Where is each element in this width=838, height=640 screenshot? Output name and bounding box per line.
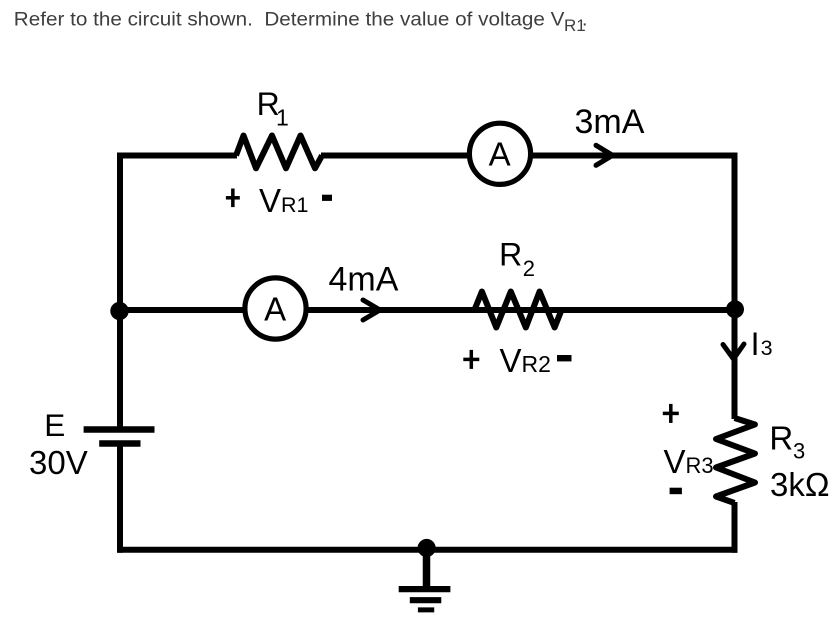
node: bottom junction bbox=[418, 539, 436, 557]
svg-text:30V: 30V bbox=[29, 444, 88, 481]
svg-text:1: 1 bbox=[276, 105, 289, 131]
svg-text:VR2: VR2 bbox=[500, 342, 551, 379]
svg-text:I: I bbox=[751, 326, 760, 362]
ammeter A1 bbox=[469, 123, 530, 184]
resistor R2 bbox=[474, 292, 561, 328]
svg-text:E: E bbox=[44, 407, 65, 443]
label - (V_R3 negative) bbox=[670, 488, 682, 495]
wire: right vertical upper (top corner to R3) bbox=[732, 153, 738, 420]
question text bbox=[14, 9, 588, 35]
svg-text:3: 3 bbox=[793, 439, 805, 464]
node: right junction bbox=[726, 300, 744, 318]
ammeter A2 bbox=[245, 278, 306, 339]
current arrow 3mA bbox=[596, 145, 613, 165]
svg-text:Refer to the circuit shown. D: Refer to the circuit shown. Determine th… bbox=[14, 9, 565, 31]
svg-text:2: 2 bbox=[523, 256, 535, 281]
svg-text:R: R bbox=[769, 419, 793, 456]
wire: left vertical lower (battery - to bottom corner) bbox=[117, 444, 123, 553]
label + (V_R1 positive) bbox=[226, 189, 240, 208]
wire: left vertical upper (top corner to battery +) bbox=[117, 153, 123, 430]
wire: top horizontal, right segment bbox=[321, 153, 738, 159]
svg-text:.: . bbox=[582, 9, 587, 31]
current arrow I3 bbox=[723, 344, 744, 359]
ground bbox=[399, 548, 451, 610]
label I3 bbox=[751, 326, 773, 362]
battery E (short plate) bbox=[99, 440, 140, 447]
resistor R1 bbox=[236, 136, 322, 169]
svg-text:4mA: 4mA bbox=[329, 261, 399, 299]
wire: right vertical lower (R3 to bottom corner) bbox=[732, 502, 738, 553]
wire: bottom horizontal bbox=[118, 547, 738, 553]
svg-text:A: A bbox=[264, 290, 286, 327]
node: left junction bbox=[110, 302, 128, 320]
wire: middle horizontal (left junction to right junction) bbox=[120, 307, 735, 313]
resistor R3 bbox=[716, 418, 755, 503]
label - (V_R2 negative) bbox=[557, 355, 572, 361]
svg-text:VR3: VR3 bbox=[664, 443, 714, 480]
wire: top horizontal, left segment bbox=[118, 153, 238, 159]
svg-text:R: R bbox=[499, 236, 522, 272]
svg-text:3: 3 bbox=[761, 336, 773, 360]
svg-text:3kΩ: 3kΩ bbox=[770, 466, 830, 503]
svg-text:VR1: VR1 bbox=[259, 182, 309, 219]
svg-text:A: A bbox=[489, 136, 511, 173]
current arrow 4mA bbox=[363, 300, 380, 320]
svg-text:3mA: 3mA bbox=[575, 103, 645, 141]
label - (V_R1 negative) bbox=[322, 195, 332, 201]
label + (V_R2 positive) bbox=[463, 350, 479, 369]
battery E (long plate) bbox=[84, 426, 155, 432]
label + (V_R3 positive) bbox=[663, 404, 679, 423]
